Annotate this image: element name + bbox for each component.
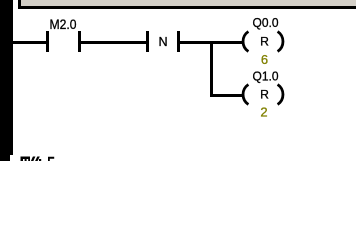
wire: branch to coil Q1.0 (210, 94, 244, 97)
contact M2.0 left bar (46, 31, 49, 52)
next network title: top of CJK glyph 1 (wang) (21, 157, 31, 162)
svg-text:2: 2 (260, 104, 267, 119)
wire: rail to contact M2.0 (13, 41, 46, 44)
network comment box (bottom edge of previous network's gray title/comment box) (18, 0, 356, 9)
svg-text:Q1.0: Q1.0 (253, 68, 279, 83)
svg-text:Q0.0: Q0.0 (253, 15, 279, 30)
svg-text:R: R (260, 88, 269, 102)
N (negative edge) contact left bar (146, 31, 149, 52)
svg-text:R: R (260, 35, 269, 49)
left power rail (10, 0, 13, 155)
wire: N contact to coil Q0.0 (180, 41, 244, 44)
svg-text:N: N (158, 35, 167, 49)
left out-of-frame margin strip (0, 0, 10, 161)
next network title: top of digit 5 (48, 157, 54, 161)
N (negative edge) contact right bar (177, 31, 180, 52)
next network title: top of CJK glyph 2 (luo) (31, 157, 41, 162)
svg-text:M2.0: M2.0 (50, 16, 77, 32)
wire: M2.0 to N contact (81, 41, 146, 44)
branch vertical wire (210, 41, 213, 96)
svg-text:6: 6 (261, 52, 268, 67)
coil Q0.0 reset: left paren (243, 32, 248, 52)
contact M2.0 right bar (78, 31, 81, 52)
coil Q1.0 reset: right paren (278, 85, 283, 105)
coil Q1.0 reset: left paren (243, 85, 248, 105)
coil Q0.0 reset: right paren (278, 32, 283, 52)
